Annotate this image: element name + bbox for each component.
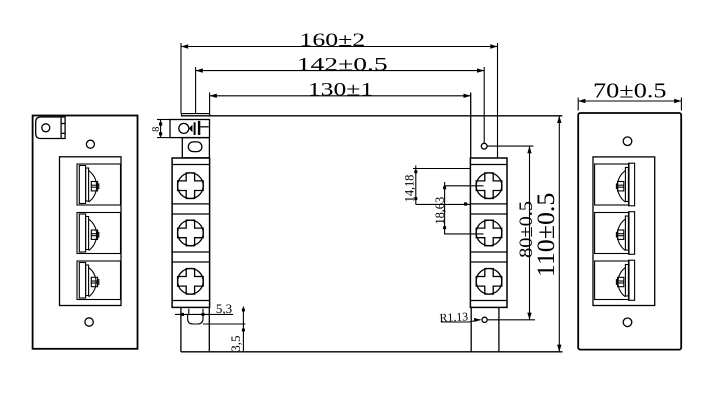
svg-text:5,3: 5,3 [216,301,232,316]
svg-text:R1,13: R1,13 [439,309,468,324]
svg-text:70±0.5: 70±0.5 [593,79,667,103]
svg-text:18,63: 18,63 [433,197,447,225]
svg-text:142±0.5: 142±0.5 [297,54,388,75]
svg-text:8: 8 [151,127,162,132]
svg-text:160±2: 160±2 [299,30,365,51]
svg-text:130±1: 130±1 [308,79,373,100]
svg-text:3,5: 3,5 [228,335,243,351]
svg-text:110±0.5: 110±0.5 [531,193,560,278]
svg-text:14,18: 14,18 [403,175,417,203]
